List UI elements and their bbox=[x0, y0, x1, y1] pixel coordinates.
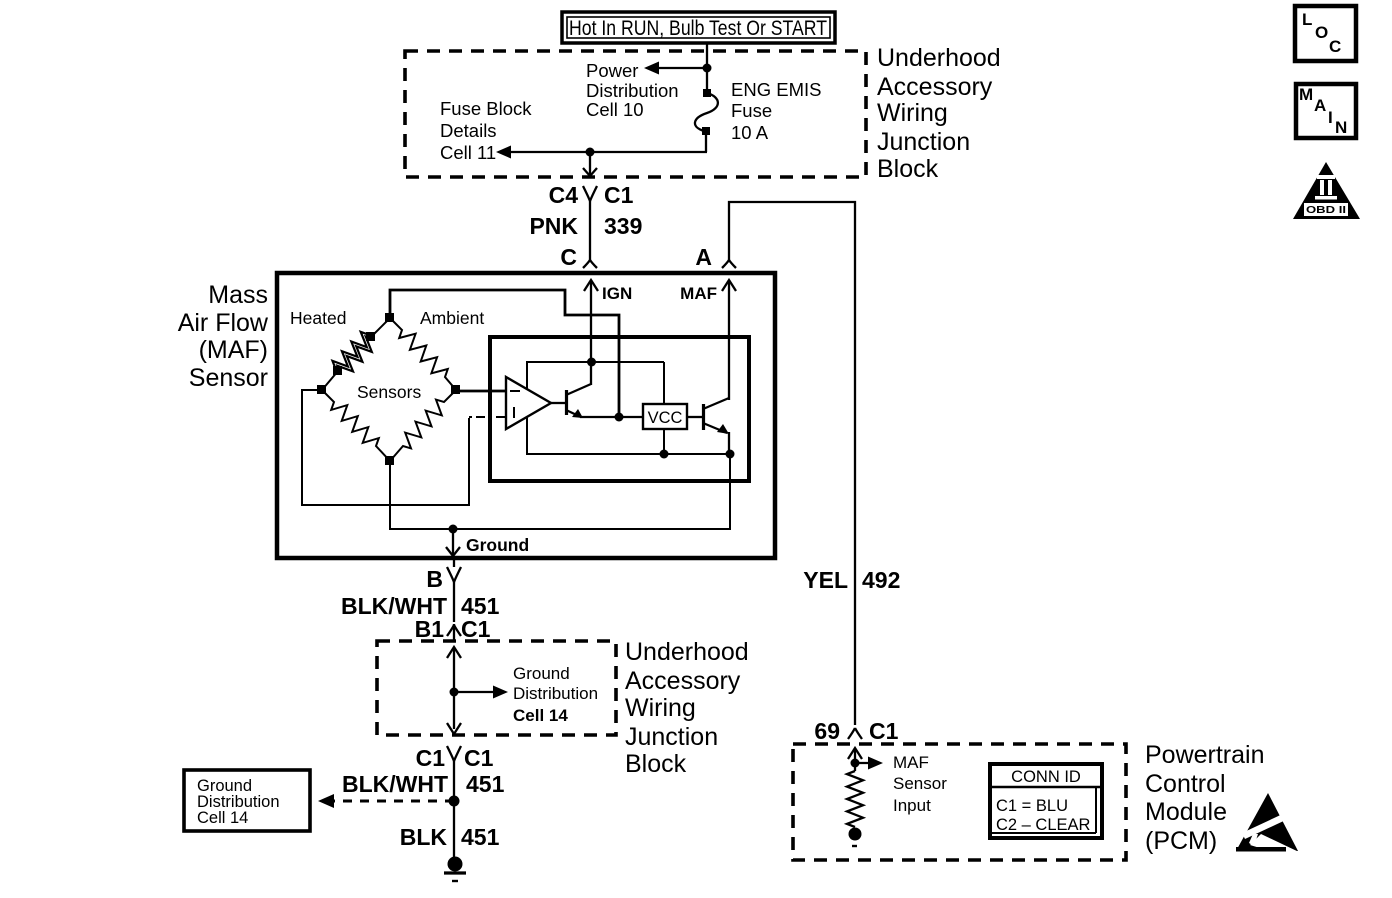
resistor bridge lower-left bbox=[322, 390, 390, 461]
OBD II emissions triangle icon bbox=[1293, 162, 1360, 219]
junction node supply rail / emitter rail bbox=[615, 413, 624, 422]
svg-text:(PCM): (PCM) bbox=[1145, 827, 1217, 855]
svg-text:Ground: Ground bbox=[513, 664, 570, 683]
wire feedback network bbox=[527, 362, 731, 454]
resistor PCM input pull-down bbox=[847, 771, 863, 827]
junction node ground rail bbox=[449, 525, 458, 534]
wire label BLK 451 bbox=[400, 824, 500, 850]
svg-text:BLK/WHT: BLK/WHT bbox=[342, 771, 448, 797]
wire comparator reference input (dash-dot) bbox=[469, 416, 506, 418]
svg-text:339: 339 bbox=[604, 213, 642, 239]
wire bridge right node to comparator input bbox=[456, 390, 506, 393]
label Fuse Block Details Cell 11 bbox=[440, 98, 532, 163]
svg-text:451: 451 bbox=[461, 824, 500, 850]
label Power Distribution Cell 10 bbox=[586, 60, 679, 120]
svg-text:Powertrain: Powertrain bbox=[1145, 741, 1265, 769]
ground arrow inside MAF sensor bbox=[446, 529, 460, 556]
connector symbol 69-C1 bbox=[848, 728, 862, 739]
junction node on power feed bbox=[703, 64, 712, 73]
junction node Q1 collector / IGN bbox=[587, 358, 596, 367]
svg-text:C: C bbox=[1329, 37, 1341, 56]
node bridge top bbox=[385, 313, 394, 322]
svg-text:A: A bbox=[1314, 96, 1326, 115]
svg-text:MAF: MAF bbox=[680, 284, 717, 303]
svg-text:VCC: VCC bbox=[648, 409, 683, 427]
hybrid circuit inner box bbox=[490, 337, 749, 481]
wire bridge supply rail bbox=[390, 290, 619, 417]
svg-text:C2 – CLEAR: C2 – CLEAR bbox=[996, 816, 1091, 834]
svg-text:O: O bbox=[1315, 23, 1328, 42]
connector symbol pin C bbox=[583, 260, 597, 268]
wire Q2 emitter down bbox=[728, 432, 730, 454]
junction node ground distribution branch bbox=[450, 688, 459, 697]
svg-text:M: M bbox=[1299, 85, 1313, 104]
connector pins C4 / C1 labels bbox=[549, 182, 634, 208]
svg-text:B: B bbox=[426, 566, 443, 592]
svg-text:451: 451 bbox=[466, 771, 505, 797]
svg-text:C4: C4 bbox=[549, 182, 579, 208]
svg-text:Accessory: Accessory bbox=[625, 667, 741, 695]
powertrain control module box (dashed) bbox=[793, 744, 1126, 860]
connector symbol pin B bbox=[447, 567, 461, 582]
svg-text:PNK: PNK bbox=[529, 213, 578, 239]
svg-text:69: 69 bbox=[814, 718, 840, 744]
wire leaving junction block down bbox=[583, 152, 597, 176]
svg-text:Wiring: Wiring bbox=[877, 99, 948, 127]
svg-text:Heated: Heated bbox=[290, 308, 346, 328]
label Underhood Accessory Wiring Junction Block (lower) bbox=[625, 638, 749, 778]
label Mass Air Flow (MAF) Sensor bbox=[178, 281, 269, 392]
svg-text:Control: Control bbox=[1145, 770, 1226, 798]
wire MAF output with arrow bbox=[722, 280, 736, 400]
svg-text:L: L bbox=[1302, 10, 1312, 29]
junction node PCM input bbox=[851, 759, 860, 768]
wire bridge left node feedback loop bbox=[302, 390, 469, 505]
wire (dashed) to ground distribution bbox=[318, 794, 450, 808]
wire VCC bottom to feedback rail bbox=[663, 429, 665, 454]
svg-text:Fuse: Fuse bbox=[731, 100, 772, 121]
svg-text:Block: Block bbox=[625, 750, 687, 778]
svg-text:Cell 11: Cell 11 bbox=[440, 142, 496, 163]
svg-text:Underhood: Underhood bbox=[877, 44, 1001, 72]
svg-text:C1 = BLU: C1 = BLU bbox=[996, 797, 1068, 815]
CONN ID table bbox=[990, 764, 1102, 838]
svg-text:Cell 14: Cell 14 bbox=[513, 706, 568, 725]
node heated resistor upper bbox=[366, 332, 375, 341]
label Underhood Accessory Wiring Junction Block (top) bbox=[877, 44, 1001, 183]
underhood accessory wiring junction block (lower, dashed) bbox=[377, 641, 616, 735]
svg-text:Distribution: Distribution bbox=[586, 80, 679, 101]
svg-text:C1: C1 bbox=[464, 745, 494, 771]
op-amp comparator U1 bbox=[506, 377, 551, 429]
svg-text:Details: Details bbox=[440, 120, 497, 141]
svg-text:Sensors: Sensors bbox=[357, 382, 421, 402]
svg-text:Accessory: Accessory bbox=[877, 73, 993, 101]
node bridge right bbox=[451, 385, 460, 394]
label Ground Distribution Cell 14 (junction block) bbox=[513, 664, 598, 725]
wire PNK 339 bbox=[589, 200, 591, 261]
svg-text:Hot In RUN, Bulb Test Or START: Hot In RUN, Bulb Test Or START bbox=[569, 16, 827, 40]
svg-text:Ground: Ground bbox=[466, 535, 529, 555]
svg-text:Sensor: Sensor bbox=[189, 364, 268, 392]
wire into lower junction block bbox=[453, 624, 455, 641]
svg-text:C1: C1 bbox=[604, 182, 634, 208]
VCC regulator box bbox=[643, 404, 687, 429]
svg-text:10 A: 10 A bbox=[731, 122, 769, 143]
svg-text:C: C bbox=[560, 244, 577, 270]
svg-text:Cell 10: Cell 10 bbox=[586, 99, 644, 120]
svg-text:Junction: Junction bbox=[877, 128, 970, 156]
ESD sensitive device icon bbox=[1236, 793, 1299, 859]
svg-text:CONN ID: CONN ID bbox=[1011, 768, 1081, 786]
power feed box Hot In RUN, Bulb Test Or START bbox=[562, 12, 835, 43]
wire from hot feed down to fuse bbox=[706, 43, 708, 92]
svg-text:Ambient: Ambient bbox=[420, 308, 484, 328]
resistor bridge lower-right bbox=[390, 390, 456, 461]
svg-text:BLK: BLK bbox=[400, 824, 448, 850]
ground bbox=[444, 857, 466, 882]
wire Q1 emitter to VCC regulator bbox=[580, 416, 643, 418]
svg-text:(MAF): (MAF) bbox=[199, 336, 268, 364]
svg-text:Sensor: Sensor bbox=[893, 774, 947, 793]
underhood accessory wiring junction block (top, dashed) bbox=[405, 51, 866, 177]
svg-text:Block: Block bbox=[877, 155, 939, 183]
svg-text:Air Flow: Air Flow bbox=[178, 309, 269, 337]
svg-text:Module: Module bbox=[1145, 798, 1227, 826]
wire label BLK/WHT 451 (lower) bbox=[342, 771, 505, 797]
value label ENG EMIS Fuse 10 A bbox=[731, 79, 821, 143]
connector pins C1 / C1 labels bbox=[416, 745, 494, 771]
svg-text:I: I bbox=[1328, 108, 1333, 127]
svg-text:Junction: Junction bbox=[625, 723, 718, 751]
svg-text:Fuse Block: Fuse Block bbox=[440, 98, 532, 119]
label MAF Sensor Input bbox=[893, 753, 947, 815]
connector pins 69 / C1 labels bbox=[814, 718, 898, 744]
wire branch to Ground Distribution Cell 14 bbox=[454, 686, 508, 699]
junction node VCC bottom bbox=[660, 450, 669, 459]
MAF sensor enclosure box bbox=[277, 273, 775, 558]
wire branch to Power Distribution bbox=[651, 67, 707, 69]
svg-text:YEL: YEL bbox=[803, 567, 848, 593]
junction node ground splice bbox=[449, 796, 460, 807]
svg-text:MAF: MAF bbox=[893, 753, 929, 772]
junction node on cell 11 rail bbox=[586, 148, 595, 157]
resistor heated sensor (double element) bbox=[322, 318, 390, 390]
wire label BLK/WHT 451 bbox=[341, 593, 500, 619]
svg-text:Wiring: Wiring bbox=[625, 694, 696, 722]
wire label PNK 339 bbox=[529, 213, 642, 239]
wire label YEL 492 bbox=[803, 567, 900, 593]
svg-text:C1: C1 bbox=[416, 745, 446, 771]
connector symbol B1-C1 bbox=[447, 625, 461, 636]
svg-text:Mass: Mass bbox=[208, 281, 268, 309]
svg-text:N: N bbox=[1335, 118, 1347, 137]
locator icon MAIN bbox=[1296, 84, 1356, 138]
wire YEL 492 from pin A to PCM bbox=[729, 202, 855, 725]
svg-text:C1: C1 bbox=[461, 616, 491, 642]
wire fuse output down bbox=[705, 133, 707, 152]
wire PCM input with arrow bbox=[848, 748, 862, 771]
wire branch to MAF Sensor Input bbox=[855, 757, 883, 770]
wire bridge bottom node to internal ground rail bbox=[390, 454, 730, 529]
wire branch to Fuse Block Details Cell 11 bbox=[496, 146, 707, 159]
transistor Q2 bbox=[687, 398, 729, 434]
node bridge left bbox=[317, 385, 326, 394]
wire through junction block with arrows bbox=[447, 647, 461, 734]
svg-text:IGN: IGN bbox=[602, 284, 632, 303]
wire VCC top to feedback rail bbox=[663, 362, 665, 404]
svg-text:Distribution: Distribution bbox=[513, 684, 598, 703]
connector symbol pin A bbox=[722, 260, 736, 268]
svg-text:B1: B1 bbox=[415, 616, 445, 642]
wire BLK/WHT 451 upper run bbox=[453, 581, 455, 622]
node heated resistor lower bbox=[333, 366, 342, 375]
transistor Q1 bbox=[551, 362, 591, 418]
wire MAF sensor pin B stub bbox=[453, 559, 455, 567]
svg-text:C1: C1 bbox=[869, 718, 899, 744]
ground distribution cell 14 reference box bbox=[184, 770, 310, 831]
svg-text:Underhood: Underhood bbox=[625, 638, 749, 666]
resistor ambient sensor bbox=[390, 318, 456, 390]
wire BLK/WHT 451 lower run bbox=[453, 760, 455, 857]
node bridge bottom bbox=[385, 456, 394, 465]
svg-text:Input: Input bbox=[893, 796, 931, 815]
junction node Q2 emitter / ground rail bbox=[726, 450, 735, 459]
connector symbol C4-C1 bbox=[583, 186, 597, 201]
ground (PCM internal) bbox=[849, 828, 862, 847]
svg-text:ENG EMIS: ENG EMIS bbox=[731, 79, 821, 100]
svg-text:A: A bbox=[695, 244, 712, 270]
svg-text:Cell 14: Cell 14 bbox=[197, 809, 248, 827]
label Powertrain Control Module (PCM) bbox=[1145, 741, 1265, 855]
svg-text:492: 492 bbox=[862, 567, 900, 593]
svg-text:OBD II: OBD II bbox=[1306, 205, 1346, 216]
fuse F1 ENG EMIS 10A bbox=[695, 89, 718, 135]
connector symbol C1-C1 bbox=[447, 746, 461, 761]
locator icon LOC bbox=[1295, 6, 1356, 61]
connector pins B1 / C1 labels bbox=[415, 616, 491, 642]
wire IGN input with arrow bbox=[584, 280, 598, 363]
svg-text:Power: Power bbox=[586, 60, 638, 81]
